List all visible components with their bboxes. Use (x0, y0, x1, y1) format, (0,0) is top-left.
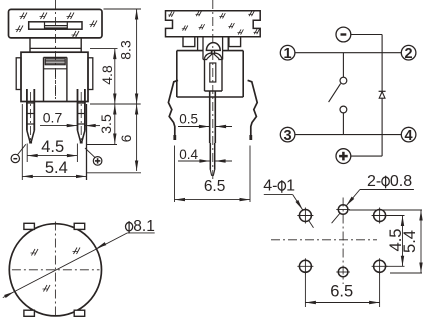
svg-text:6.5: 6.5 (204, 178, 226, 195)
svg-text:6: 6 (118, 134, 134, 142)
svg-text:4.5: 4.5 (41, 138, 64, 156)
svg-text:5.4: 5.4 (45, 159, 68, 177)
svg-text:0.7: 0.7 (43, 109, 63, 125)
svg-text:8.1: 8.1 (133, 218, 155, 235)
svg-text:0.4: 0.4 (179, 147, 198, 162)
svg-text:1: 1 (284, 46, 292, 62)
svg-text:6.5: 6.5 (330, 283, 353, 301)
svg-text:2-: 2- (367, 173, 381, 190)
svg-text:8.3: 8.3 (118, 40, 134, 60)
svg-text:5.4: 5.4 (401, 230, 419, 253)
svg-text:4-: 4- (263, 177, 277, 194)
svg-text:4.8: 4.8 (99, 65, 115, 85)
svg-text:0.5: 0.5 (179, 111, 198, 126)
svg-text:3: 3 (284, 128, 292, 144)
svg-text:3.5: 3.5 (98, 114, 114, 134)
svg-text:2: 2 (405, 46, 413, 62)
svg-text:4: 4 (405, 128, 413, 144)
svg-text:1: 1 (286, 177, 295, 194)
svg-text:0.8: 0.8 (390, 173, 412, 190)
